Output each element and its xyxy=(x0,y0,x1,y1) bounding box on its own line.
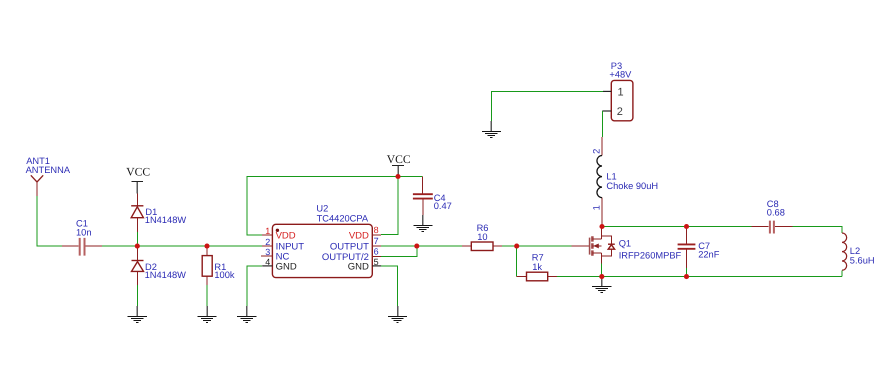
P3 pin 2 xyxy=(602,106,623,118)
wire D2 upper xyxy=(136,232,138,246)
wire VCC rail to U2 pin8 xyxy=(381,177,398,235)
U2 pin 1 VDD xyxy=(262,226,296,242)
node junction dots xyxy=(135,174,689,279)
inductor L2 xyxy=(842,233,875,270)
wire C8 to L2 xyxy=(792,227,842,234)
ground (C4) xyxy=(413,215,432,232)
diode D1 xyxy=(131,193,186,232)
svg-text:R7: R7 xyxy=(532,252,544,262)
ground (D2) xyxy=(128,306,147,323)
svg-text:1: 1 xyxy=(265,226,270,236)
svg-text:+48V: +48V xyxy=(609,69,632,79)
connector P3 body xyxy=(611,80,633,120)
wire R1 to ground xyxy=(206,285,208,306)
wire R7 to source rail xyxy=(557,276,602,278)
svg-text:5.6uH: 5.6uH xyxy=(850,255,875,265)
svg-text:2: 2 xyxy=(265,237,270,247)
wire OUTPUT/2 tie xyxy=(381,246,417,256)
svg-text:ANTENNA: ANTENNA xyxy=(26,165,71,175)
capacitor C4 xyxy=(413,177,452,215)
wire VCC rail to U2 pin1 xyxy=(247,177,423,236)
svg-text:10n: 10n xyxy=(76,228,92,238)
svg-text:10: 10 xyxy=(477,232,487,242)
wire antenna to C1 xyxy=(37,196,62,246)
U2 pin 5 GND xyxy=(348,257,381,273)
wire U2 pin5 to ground xyxy=(381,266,397,306)
wire Q1 source xyxy=(601,264,603,277)
diode D2 xyxy=(132,246,187,285)
resistor R6 xyxy=(462,223,502,251)
power VCC (left) xyxy=(126,166,150,194)
U2 pin 4 GND xyxy=(262,257,297,273)
wire R6 to gate node xyxy=(502,245,571,247)
U2 pin 3 NC xyxy=(261,247,289,263)
ground (P3) xyxy=(482,121,501,137)
U2 pin 6 OUTPUT/2 xyxy=(322,247,381,263)
U2 orientation dot xyxy=(276,229,279,232)
svg-text:GND: GND xyxy=(348,261,369,272)
svg-text:TC4420CPA: TC4420CPA xyxy=(317,213,369,223)
svg-text:VDD: VDD xyxy=(276,230,296,241)
capacitor C1 xyxy=(62,218,102,255)
wire U2 pin4 to ground xyxy=(247,266,262,306)
svg-text:1: 1 xyxy=(592,205,602,210)
svg-text:1N4148W: 1N4148W xyxy=(145,270,187,280)
antenna ANT1 labels xyxy=(26,156,71,175)
svg-text:6: 6 xyxy=(374,247,379,257)
svg-text:2: 2 xyxy=(617,106,623,118)
wire L2 to source rail xyxy=(841,270,843,276)
svg-text:1N4148W: 1N4148W xyxy=(145,215,187,225)
svg-text:1k: 1k xyxy=(532,262,542,272)
svg-text:VCC: VCC xyxy=(126,166,150,179)
wire C1 to U2 pin2 xyxy=(102,245,262,247)
capacitor C7 xyxy=(678,227,720,277)
U2 pin 8 VDD xyxy=(349,225,381,241)
ground (U2 pin5) xyxy=(388,306,407,323)
svg-text:IRFP260MPBF: IRFP260MPBF xyxy=(619,251,682,261)
inductor L1 xyxy=(592,137,658,224)
connector P3 labels xyxy=(609,61,632,80)
wire gate node down to R7 xyxy=(516,246,518,277)
U2 pin 2 INPUT xyxy=(262,237,304,253)
wire P3 pin1 to ground xyxy=(491,91,603,121)
wire P3 pin2 to L1 xyxy=(601,111,603,137)
svg-text:L1: L1 xyxy=(606,171,616,181)
wire drain rail xyxy=(602,226,751,228)
U2 pin 7 OUTPUT xyxy=(330,236,381,252)
svg-text:7: 7 xyxy=(374,236,379,246)
ground (U2 pin4) xyxy=(237,306,256,323)
svg-text:2: 2 xyxy=(592,149,602,154)
ground (Q1 source) xyxy=(592,278,611,293)
svg-text:22nF: 22nF xyxy=(698,250,720,260)
capacitor C8 xyxy=(751,199,792,233)
svg-text:0.47: 0.47 xyxy=(434,201,452,211)
svg-text:Q1: Q1 xyxy=(619,238,631,248)
svg-text:1: 1 xyxy=(618,86,624,98)
svg-text:5: 5 xyxy=(374,257,379,267)
ground (R1) xyxy=(197,306,216,323)
U2 reference labels xyxy=(316,204,368,224)
svg-text:100k: 100k xyxy=(214,270,235,280)
transistor Q1 IRFP260MPBF xyxy=(572,227,682,264)
svg-text:8: 8 xyxy=(374,225,379,235)
svg-text:GND: GND xyxy=(276,261,297,272)
svg-text:OUTPUT: OUTPUT xyxy=(330,241,369,252)
svg-text:3: 3 xyxy=(265,247,270,257)
resistor R1 xyxy=(202,246,235,285)
svg-text:U2: U2 xyxy=(316,204,328,214)
resistor R7 xyxy=(517,252,557,280)
op-amp driver U2 TC4420CPA body xyxy=(272,224,372,277)
svg-text:VDD: VDD xyxy=(349,230,369,241)
wire source rail xyxy=(602,276,842,278)
svg-text:Choke 90uH: Choke 90uH xyxy=(606,181,658,191)
svg-text:4: 4 xyxy=(265,257,270,267)
P3 pin 1 xyxy=(603,86,624,98)
svg-text:VCC: VCC xyxy=(387,153,411,166)
antenna ANT1 symbol xyxy=(31,175,43,182)
wire U2 outputs to R6 xyxy=(381,245,462,247)
svg-text:0.68: 0.68 xyxy=(767,207,785,217)
wire D2 to ground xyxy=(136,285,138,306)
power VCC (top) xyxy=(387,153,411,177)
